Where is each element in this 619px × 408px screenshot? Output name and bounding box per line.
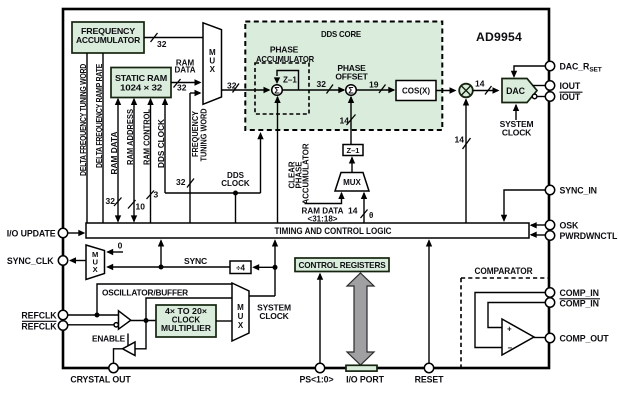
ram data <31:18> input to mux <box>302 192 345 224</box>
svg-text:CRYSTAL OUT: CRYSTAL OUT <box>70 375 131 385</box>
svg-text:32: 32 <box>177 83 187 93</box>
refclk bypass wire to clock mux <box>95 284 233 318</box>
divide by 4 box <box>230 261 275 274</box>
mux U4 (phase offset mux) <box>335 156 369 191</box>
pin IOUT <box>545 81 581 91</box>
theta input to mux, bus 14 <box>348 192 373 223</box>
svg-text:CONTROL REGISTERS: CONTROL REGISTERS <box>299 260 387 270</box>
svg-text:+: + <box>507 325 512 334</box>
svg-text:10: 10 <box>136 202 146 212</box>
svg-text:32: 32 <box>176 177 186 187</box>
svg-text:Σ: Σ <box>274 85 280 95</box>
gray bidirectional bus arrow <box>347 273 374 365</box>
feedback loop z-1 of phase accumulator <box>274 71 299 91</box>
svg-text:−: − <box>508 344 513 353</box>
svg-text:CLOCK: CLOCK <box>221 179 250 188</box>
svg-text:32: 32 <box>317 79 327 89</box>
pin DAC_RSET <box>545 61 601 73</box>
pin CRYSTAL OUT <box>70 363 131 384</box>
svg-text:REFCLK: REFCLK <box>21 311 57 321</box>
svg-text:RESET: RESET <box>415 375 445 385</box>
svg-text:IOUT: IOUT <box>560 92 581 102</box>
wire multiplier to DAC, bus 14 <box>473 79 500 95</box>
svg-text:ENABLE: ENABLE <box>92 334 126 344</box>
svg-text:÷4: ÷4 <box>236 264 245 273</box>
SYNC wire and branch to timing bar <box>106 239 230 270</box>
svg-text:OFFSET: OFFSET <box>335 72 368 82</box>
phase accumulator dashed box <box>255 45 314 115</box>
svg-text:0: 0 <box>118 241 123 251</box>
mux U1 (freq word mux) <box>203 23 222 105</box>
svg-text:STATIC RAM: STATIC RAM <box>115 73 167 83</box>
wire delta frequency tuning word <box>79 53 88 223</box>
svg-text:SYNC_IN: SYNC_IN <box>560 186 597 196</box>
pin I/O UPDATE and wire <box>7 228 86 238</box>
svg-text:32: 32 <box>227 81 237 91</box>
buffer amplifier <box>114 311 156 329</box>
svg-text:COMPARATOR: COMPARATOR <box>475 266 534 276</box>
svg-text:AD9954: AD9954 <box>476 30 522 44</box>
svg-text:14: 14 <box>348 206 358 216</box>
I/O PORT block <box>346 365 385 384</box>
pin OSK <box>530 220 579 230</box>
svg-text:Z–1: Z–1 <box>283 76 297 85</box>
svg-text:1024 × 32: 1024 × 32 <box>120 83 163 93</box>
PS<1:0> wire to control registers <box>299 273 333 385</box>
wire mux to phase accumulator, bus 32 <box>222 81 271 94</box>
svg-text:SYNC_CLK: SYNC_CLK <box>7 256 54 266</box>
svg-text:14: 14 <box>475 79 485 89</box>
clear phase accumulator wire <box>274 96 310 223</box>
svg-text:OSCILLATOR/BUFFER: OSCILLATOR/BUFFER <box>102 288 188 298</box>
static ram box <box>111 68 171 98</box>
DAC block <box>502 79 537 103</box>
svg-text:PWRDWNCTL: PWRDWNCTL <box>560 231 618 241</box>
svg-text:MULTIPLIER: MULTIPLIER <box>161 324 211 333</box>
svg-text:REFCLK: REFCLK <box>21 322 57 332</box>
wire frequency tuning word to mux <box>176 90 208 223</box>
svg-text:COMP_IN: COMP_IN <box>560 299 599 309</box>
svg-text:Σ: Σ <box>348 85 354 95</box>
svg-text:DDS CORE: DDS CORE <box>321 29 361 39</box>
wire ram control <box>143 98 159 223</box>
adder U2 (phase accumulator sigma) <box>272 85 283 96</box>
adder U3 (phase offset sigma) <box>335 63 368 95</box>
svg-text:3: 3 <box>154 190 159 200</box>
z-1 box (phase offset path) <box>343 145 363 156</box>
system clock stub into DAC <box>500 104 534 138</box>
svg-text:PS<1:0>: PS<1:0> <box>299 375 333 385</box>
pin COMP_IN-bar and wire to plus input <box>488 298 600 328</box>
mux U6 (system clock mux) <box>232 283 291 341</box>
DAC_RSET wire <box>511 66 546 78</box>
pin SYNC_IN and wire <box>501 185 597 222</box>
buffered clock bypass to mux <box>146 298 232 321</box>
svg-text:COS(X): COS(X) <box>402 87 430 96</box>
svg-text:X: X <box>93 265 98 274</box>
wire dds clock distribution <box>165 132 264 223</box>
svg-text:DELTA FREQUENCY TUNING WORD: DELTA FREQUENCY TUNING WORD <box>79 64 88 176</box>
svg-text:DAC: DAC <box>506 86 526 96</box>
svg-text:DELTA FREQUENCY RAMP RATE: DELTA FREQUENCY RAMP RATE <box>95 63 104 168</box>
svg-text:SYNC: SYNC <box>184 256 207 266</box>
svg-text:I/O PORT: I/O PORT <box>346 375 385 385</box>
svg-text:X: X <box>210 65 216 74</box>
4x to 20x clock multiplier box <box>156 305 232 337</box>
pin REFCLK <box>21 310 118 320</box>
pin COMP_IN and wire to minus input <box>475 288 599 348</box>
svg-text:TIMING AND CONTROL LOGIC: TIMING AND CONTROL LOGIC <box>275 226 392 236</box>
chip outer border <box>63 9 549 368</box>
wire sigma1 to sigma2, bus 32 <box>282 79 345 94</box>
multiplier M1 (OSK) <box>436 84 473 98</box>
svg-text:CLOCK: CLOCK <box>502 128 532 138</box>
wire ram address (bidir) <box>126 98 145 223</box>
pin REFCLK-bar <box>21 321 113 332</box>
IOUT wires and inverted output bubble <box>532 86 545 99</box>
frequency accumulator box <box>72 22 144 53</box>
svg-text:DATA: DATA <box>174 66 195 75</box>
svg-text:COMP_OUT: COMP_OUT <box>560 334 610 344</box>
wire freq acc to mux, bus 32 <box>144 33 203 49</box>
pin PWRDWNCTL <box>530 231 618 241</box>
svg-text:14: 14 <box>455 135 465 145</box>
pin SYNC_CLK <box>7 256 68 266</box>
svg-text:Z–1: Z–1 <box>347 146 360 155</box>
svg-text:14: 14 <box>340 116 350 126</box>
DDS CORE dashed box <box>245 22 442 131</box>
pin IOUT-bar <box>545 92 582 102</box>
svg-text:M: M <box>237 303 244 312</box>
svg-text:DDS CLOCK: DDS CLOCK <box>157 119 166 168</box>
svg-text:COMP_IN: COMP_IN <box>560 288 599 298</box>
system clock riser to timing bar <box>272 239 278 296</box>
constant 0 input <box>106 241 123 256</box>
svg-text:TUNING WORD: TUNING WORD <box>200 108 209 161</box>
timing and control logic bar <box>86 223 529 238</box>
svg-text:RAM ADDRESS: RAM ADDRESS <box>126 108 135 165</box>
svg-text:MUX: MUX <box>343 178 361 187</box>
op-amp U7 (comparator) <box>502 319 534 355</box>
svg-text:ACCUMULATOR: ACCUMULATOR <box>76 35 140 45</box>
pin COMP_OUT and wire <box>534 333 609 343</box>
cos(x) block <box>396 81 436 101</box>
svg-text:<31:18>: <31:18> <box>308 215 338 224</box>
svg-text:32: 32 <box>106 196 116 206</box>
wire ram data (bidir) <box>106 98 122 223</box>
OSK scale wire from timing logic, bus 14 <box>455 98 471 223</box>
svg-text:CLOCK: CLOCK <box>259 311 289 321</box>
svg-text:ACCUMULATOR: ACCUMULATOR <box>302 143 311 204</box>
wire dds clock to ram <box>157 98 168 193</box>
control registers box <box>295 258 389 272</box>
wire sigma2 to cos, bus 19 <box>356 80 395 94</box>
svg-text:RAM DATA: RAM DATA <box>110 131 119 174</box>
svg-text:θ: θ <box>369 211 373 220</box>
enable inverter to crystal out <box>92 321 146 364</box>
svg-text:RAM CONTROL: RAM CONTROL <box>143 109 152 165</box>
wire delta frequency ramp rate <box>95 53 104 223</box>
svg-text:32: 32 <box>157 39 167 49</box>
svg-text:PHASE: PHASE <box>270 45 299 55</box>
svg-text:U: U <box>238 312 244 321</box>
wire sigma2 down to z-1 box, bus 14 <box>340 96 356 145</box>
svg-text:X: X <box>238 321 244 330</box>
svg-text:I/O UPDATE: I/O UPDATE <box>7 229 56 239</box>
svg-text:IOUT: IOUT <box>560 81 581 91</box>
wire ram data out to mux, bus 32 <box>171 59 202 93</box>
svg-text:ACCUMULATOR: ACCUMULATOR <box>256 54 314 64</box>
mux U5 (sync_clk mux) <box>69 245 105 280</box>
svg-text:19: 19 <box>369 80 379 90</box>
pin RESET and wire <box>415 239 445 384</box>
svg-text:OSK: OSK <box>560 221 580 231</box>
comparator dashed box <box>461 266 549 368</box>
